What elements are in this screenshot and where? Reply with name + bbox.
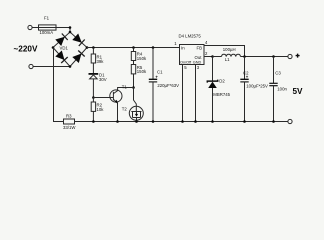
wire bottom rail (ground/minus rail) xyxy=(75,121,289,123)
svg-text:L1: L1 xyxy=(225,57,230,62)
svg-text:220µF*63V: 220µF*63V xyxy=(157,83,179,88)
resistor R2 xyxy=(91,102,95,111)
wire AC bottom terminal to bridge bottom vertex xyxy=(33,66,70,68)
wire fuse node down to bridge top xyxy=(69,28,71,33)
svg-text:F1: F1 xyxy=(44,16,50,21)
junction dot C2 bottom xyxy=(243,120,246,123)
junction dot bridge left vertex xyxy=(52,46,55,49)
svg-text:GND: GND xyxy=(193,60,202,64)
wire R2 to bottom rail xyxy=(92,111,94,121)
svg-text:39k: 39k xyxy=(97,59,105,64)
wire inductor to output node xyxy=(241,56,289,58)
capacitor C1 xyxy=(152,48,154,80)
wire FB pin to output node xyxy=(204,46,245,57)
junction dot collector node xyxy=(132,86,135,89)
junction dot pin5 at rail xyxy=(181,120,184,123)
terminal AC input bottom xyxy=(29,64,33,68)
junction dot fuse corner xyxy=(69,26,72,29)
junction dot R1 top xyxy=(92,46,95,49)
diode D2 MBR745 catch diode xyxy=(212,57,214,82)
junction dot T1 emitter at rail xyxy=(116,120,119,123)
transistor T1 xyxy=(110,90,122,102)
wire R1 to zener D1 xyxy=(92,63,94,73)
wire rail to R4 xyxy=(133,48,135,52)
zener D1 triangle (hollow) xyxy=(90,75,98,79)
wire switch node to inductor xyxy=(213,56,222,58)
svg-text:On/Off: On/Off xyxy=(180,60,192,64)
transistor T2 (FET) xyxy=(129,106,143,120)
svg-text:MBR745: MBR745 xyxy=(213,92,230,97)
svg-text:100mA: 100mA xyxy=(40,30,54,35)
resistor R5 xyxy=(131,65,135,74)
junction dot output node C2 xyxy=(243,55,246,58)
svg-text:D4 LM2575: D4 LM2575 xyxy=(179,34,202,39)
junction dot C1 bottom xyxy=(152,120,155,123)
junction dot D2 at rail xyxy=(211,120,214,123)
label plus output xyxy=(296,54,300,58)
svg-text:10k: 10k xyxy=(97,107,105,112)
svg-text:100n: 100n xyxy=(277,86,287,91)
diode VD1 top-right xyxy=(72,34,82,43)
wire GND pin 3 to rail xyxy=(195,65,197,122)
junction dot C1 top xyxy=(152,46,155,49)
fuse F1 xyxy=(39,25,57,30)
wire On/Off pin 5 to rail xyxy=(182,65,184,122)
wire R5 to collector node xyxy=(133,74,135,88)
svg-text:30V: 30V xyxy=(99,77,107,82)
capacitor C2 xyxy=(244,57,246,80)
junction dot bridge bottom vertex xyxy=(69,65,72,68)
bridge rectifier VD1 diamond xyxy=(53,32,87,67)
junction dot C3 top xyxy=(272,55,275,58)
svg-text:C3: C3 xyxy=(275,70,281,75)
wire base node to T1 base xyxy=(93,97,113,99)
svg-text:~220V: ~220V xyxy=(14,45,38,54)
svg-text:100µH: 100µH xyxy=(223,47,236,52)
wire Out pin to switch node xyxy=(204,56,213,58)
svg-text:5V: 5V xyxy=(293,87,304,96)
zener D1 cathode bar xyxy=(89,73,99,75)
wire base node to R2 xyxy=(92,98,94,103)
resistor R4 xyxy=(131,52,135,61)
wire terminal to fuse xyxy=(32,27,70,29)
svg-text:150k: 150k xyxy=(137,56,147,61)
junction dot pin3 at rail xyxy=(194,120,197,123)
wire top positive rail from bridge to IC input xyxy=(87,47,180,49)
wire rail to R1 xyxy=(92,48,94,55)
svg-text:T1: T1 xyxy=(122,84,128,89)
wire DC minus: bridge left vertex down to bottom rail xyxy=(54,48,64,122)
junction dot bridge right vertex xyxy=(86,46,89,49)
wire zener to base node xyxy=(92,79,94,98)
svg-text:D2: D2 xyxy=(219,79,225,84)
inductor L1 xyxy=(222,54,241,56)
junction dot R4 top xyxy=(132,46,135,49)
junction dot R2 bottom xyxy=(92,120,95,123)
junction dot bridge top vertex xyxy=(69,31,72,34)
resistor R3 (series in bottom rail) xyxy=(64,119,75,124)
svg-text:VD1: VD1 xyxy=(60,45,69,50)
svg-text:33/1W: 33/1W xyxy=(63,125,76,130)
junction dot C3 bottom xyxy=(272,120,275,123)
capacitor C3 xyxy=(273,57,275,84)
svg-text:FB: FB xyxy=(197,46,203,51)
svg-text:In: In xyxy=(181,46,185,51)
junction dot base node xyxy=(92,96,95,99)
diode VD1 bottom-left xyxy=(55,51,64,61)
svg-text:T2: T2 xyxy=(122,107,128,112)
terminal AC input top (~220V line) xyxy=(28,25,32,29)
terminal output minus xyxy=(288,119,292,123)
junction dot T2 at rail xyxy=(135,120,138,123)
svg-text:100µF*25V: 100µF*25V xyxy=(246,84,268,89)
diode VD1 bottom-right xyxy=(72,54,81,64)
terminal output plus xyxy=(288,54,292,58)
wire collector node down to T2 xyxy=(134,88,137,112)
op-amp U1 : regulator IC D4 LM2575 box xyxy=(180,45,205,65)
svg-text:R3: R3 xyxy=(66,114,72,119)
junction dot switch node xyxy=(211,55,214,58)
svg-text:150k: 150k xyxy=(137,69,147,74)
diode VD1 top-left xyxy=(55,37,65,46)
wire R4 to R5 xyxy=(133,61,135,65)
resistor R1 xyxy=(91,54,95,63)
